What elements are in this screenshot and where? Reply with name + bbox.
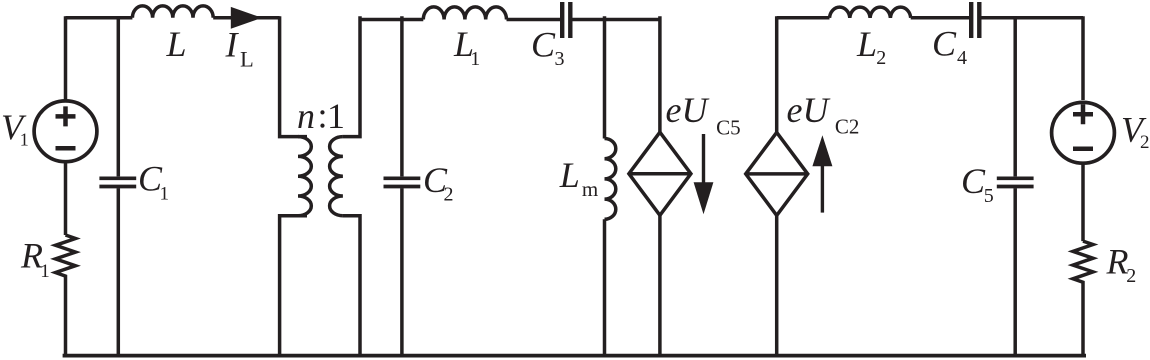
svg-text:R: R	[1106, 242, 1129, 282]
svg-text:C: C	[961, 161, 986, 201]
svg-text:C: C	[932, 24, 957, 64]
svg-text:n: n	[297, 96, 315, 136]
svg-text:2: 2	[876, 47, 886, 69]
svg-text:m: m	[582, 177, 598, 201]
svg-text:1: 1	[20, 130, 29, 150]
svg-text:2: 2	[444, 183, 454, 205]
svg-text:L: L	[240, 47, 254, 72]
svg-text::: :	[318, 96, 328, 136]
svg-text:C2: C2	[835, 115, 860, 139]
svg-text:C: C	[531, 24, 556, 64]
svg-text:1: 1	[40, 261, 50, 282]
svg-text:3: 3	[555, 48, 565, 70]
svg-text:C5: C5	[716, 116, 741, 140]
svg-text:L: L	[166, 24, 187, 64]
svg-text:1: 1	[470, 48, 480, 70]
svg-text:4: 4	[957, 47, 967, 69]
svg-text:5: 5	[984, 185, 994, 207]
svg-text:I: I	[225, 25, 240, 65]
svg-text:2: 2	[1126, 265, 1136, 287]
svg-text:eU: eU	[666, 90, 710, 130]
svg-text:L: L	[559, 155, 580, 195]
svg-text:eU: eU	[787, 90, 831, 130]
svg-text:2: 2	[1140, 132, 1150, 153]
svg-text:1: 1	[327, 96, 345, 136]
svg-text:1: 1	[160, 183, 170, 204]
svg-text:L: L	[856, 24, 877, 64]
